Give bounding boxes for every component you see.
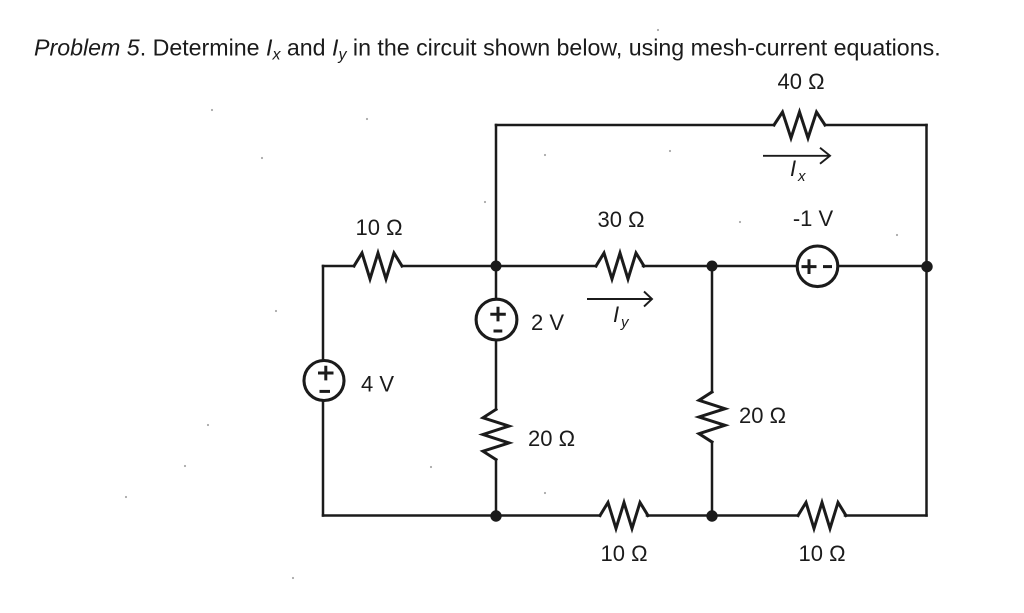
node B junction dot: [491, 261, 502, 272]
svg-text:y: y: [620, 314, 630, 331]
svg-text:40 Ω: 40 Ω: [777, 69, 824, 94]
node C junction dot: [707, 261, 718, 272]
wire middle segment node B to 30 ohm: [402, 265, 596, 268]
wire middle-right segment: [838, 265, 927, 268]
label 40 ohm: [777, 69, 824, 94]
svg-text:10 Ω: 10 Ω: [600, 541, 647, 566]
svg-text:x: x: [797, 168, 806, 185]
label 10 ohm (bottom right): [798, 541, 845, 566]
4V minus sign: [320, 390, 331, 393]
resistor 10 ohm (bottom left): [600, 503, 648, 529]
label 2 V: [531, 310, 564, 335]
2V minus sign: [494, 330, 503, 333]
wire 2V branch middle: [495, 340, 498, 409]
wire top-right segment: [825, 124, 927, 127]
wire right vertical: [925, 125, 928, 516]
wire bottom segment middle: [647, 514, 798, 517]
label 4 V: [361, 372, 394, 397]
svg-text:-1 V: -1 V: [793, 206, 834, 231]
4V plus sign: [318, 366, 334, 381]
wire middle segment node C to source: [643, 265, 797, 268]
label 10 ohm (bottom left): [600, 541, 647, 566]
node E junction dot: [490, 510, 501, 521]
resistor 40 ohm (top): [774, 112, 825, 138]
wire bottom segment right: [845, 514, 927, 517]
node D junction dot: [921, 261, 932, 272]
svg-text:Problem 5. Determine Ix and Iy: Problem 5. Determine Ix and Iy in the ci…: [34, 35, 941, 64]
svg-text:10 Ω: 10 Ω: [798, 541, 845, 566]
svg-text:20 Ω: 20 Ω: [528, 426, 575, 451]
label 10 ohm (middle): [355, 215, 402, 240]
wire center vertical upper (top node to middle node): [495, 125, 498, 266]
svg-text:10 Ω: 10 Ω: [355, 215, 402, 240]
resistor 10 ohm (middle): [354, 253, 402, 279]
resistor 10 ohm (bottom right): [798, 503, 846, 529]
resistor 20 ohm (right vertical): [699, 392, 725, 442]
label 20 ohm (left): [528, 426, 575, 451]
node F junction dot: [706, 510, 717, 521]
voltage source -1V (circle): [797, 246, 838, 287]
wire bottom segment left: [323, 514, 600, 517]
resistor 20 ohm (left vertical): [483, 409, 509, 459]
resistor 30 ohm: [596, 253, 644, 279]
-1V minus sign: [823, 265, 832, 268]
label -1 V: [793, 206, 834, 231]
svg-text:I: I: [790, 156, 796, 181]
svg-text:20 Ω: 20 Ω: [739, 403, 786, 428]
label Iy: [613, 302, 630, 331]
wire middle-left segment: [323, 265, 354, 268]
wire top-left segment: [496, 124, 774, 127]
-1V plus sign: [802, 259, 817, 274]
voltage source 4V (circle): [304, 361, 344, 401]
wire 2V branch lower: [495, 460, 498, 516]
label Ix: [790, 156, 806, 185]
wire 2V branch upper: [495, 266, 498, 299]
label 30 ohm: [597, 207, 644, 232]
2V plus sign: [490, 307, 506, 322]
wire left outer upper: [322, 266, 325, 361]
svg-text:2 V: 2 V: [531, 310, 564, 335]
arrow Iy: [587, 292, 652, 307]
label 20 ohm (right): [739, 403, 786, 428]
voltage source 2V (circle): [476, 299, 517, 340]
svg-text:4 V: 4 V: [361, 372, 394, 397]
wire 20 ohm branch lower: [711, 442, 714, 516]
problem title: [34, 35, 941, 64]
svg-text:30 Ω: 30 Ω: [597, 207, 644, 232]
wire left outer lower: [322, 401, 325, 516]
svg-text:I: I: [613, 302, 619, 327]
wire 20 ohm branch upper: [711, 266, 714, 392]
arrow Ix: [763, 148, 830, 164]
